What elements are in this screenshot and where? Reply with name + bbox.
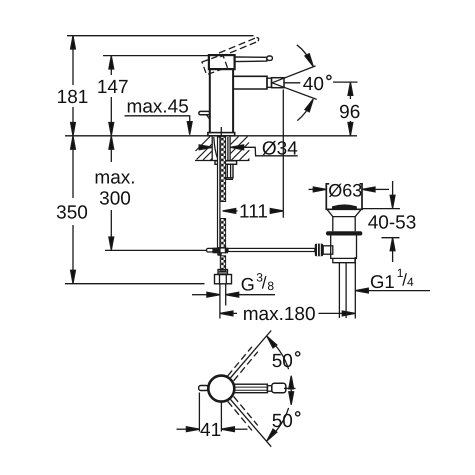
flex hose braided segment 3 [220,256,225,272]
faucet handle cap [209,55,235,69]
flex hose braided segment 1 [220,136,225,201]
dim 181 extension line top [67,35,254,37]
waste valve plug dome [333,205,357,208]
svg-text:111: 111 [239,202,268,223]
waste valve lower body [331,236,357,259]
svg-text:50: 50 [272,351,293,372]
dim 96 top tick [333,81,358,83]
aerator [272,78,285,88]
svg-text:max.180: max.180 [243,304,316,325]
waste valve rim box [326,184,362,210]
dim 40-53 bottom tick [382,237,400,239]
spray fan lower arc arrow [297,101,311,120]
svg-text:/: / [262,274,267,293]
waste valve o-ring [326,231,362,235]
top view rotation double arrow [290,382,292,398]
svg-text:181: 181 [57,87,89,108]
dim 41 arrows [177,428,187,430]
waste tailpipe [338,263,340,318]
G38 arrows [192,294,207,296]
top view lever grip [272,383,286,392]
dim max45 leader [125,116,190,122]
dim 147 arrows [109,56,114,69]
spray fan lines [272,66,316,83]
mounting washer [215,161,237,165]
faucet handle cap dashed (raised) [202,55,227,75]
dim 350 arrows [71,136,76,149]
dim 350 extension line bottom [65,283,205,285]
dim 41 extension right [220,403,222,432]
dim 111 line left [223,210,238,212]
svg-text:50: 50 [272,411,293,432]
top view centerline stub [284,387,296,389]
top view lower dashed lever [228,396,258,430]
dim max180 line right [319,312,356,314]
svg-text:41: 41 [200,420,221,441]
rod stem [323,246,333,254]
faucet lever dashed (raised) [219,38,259,57]
dim 181 line [72,36,74,85]
svg-text:G1: G1 [370,271,395,292]
top view lower arc arrow [270,408,289,438]
base flange [208,133,235,136]
top view pop-up stub [199,386,209,391]
label G114 leader arrow [368,290,430,292]
rod clamp tee [207,248,214,252]
top view lever neck [267,386,271,392]
svg-text:G: G [241,275,255,295]
waste valve step [333,258,355,262]
dim 147 extension line top [103,55,209,57]
svg-text:4: 4 [407,275,414,289]
dim 147 line [110,56,112,75]
pop-up rod vertical [218,137,220,248]
dim max300 line [110,136,112,162]
dim 96 line [349,82,351,99]
dim 350 line [72,136,74,198]
40-53 top tick [362,208,400,210]
top view upper 50 line [231,331,272,378]
flex hose braided segment 2 [220,219,225,248]
svg-text:Ø34: Ø34 [262,138,298,159]
dim 181 arrows [71,36,76,49]
svg-text:max.45: max.45 [127,96,189,117]
top view upper dashed lever [228,347,258,381]
hose curve in hole [214,137,218,158]
dim 111 line right [270,210,284,212]
valve right extension line [354,257,356,319]
svg-text:300: 300 [99,188,131,209]
top view upper arc arrow [270,339,289,369]
faucet body [209,69,211,133]
deck hatch right [231,137,250,161]
top view circle [208,376,234,402]
waste valve neck trapezoid [327,209,361,216]
hose end collar [218,270,228,275]
dim O34 leader [244,147,298,156]
rod knob [315,244,323,257]
svg-text:Ø63: Ø63 [328,180,362,200]
dim max300 extension line bottom [105,249,207,251]
deck surface line [65,135,357,137]
svg-text:350: 350 [56,202,88,223]
hose end nut G38 [215,275,232,284]
dim max180 line left [220,312,237,314]
svg-text:40: 40 [303,74,324,95]
faucet spout [233,76,267,89]
faucet lever solid [235,57,267,62]
mounting nut [225,164,233,178]
top view lower 50 line [231,399,272,446]
deck hatch left [196,137,213,161]
label G38 [241,270,275,294]
svg-text:max.: max. [94,168,135,189]
hose inside body [220,127,222,137]
svg-text:96: 96 [339,102,360,123]
deck bottom line [195,160,250,162]
label G114 [370,266,414,292]
svg-text:8: 8 [267,279,274,293]
svg-text:147: 147 [97,77,129,98]
spout joint [267,78,272,87]
dim 40-53 lower arrow [392,251,394,262]
hose width extension lines [219,284,221,319]
top view lever shaft [234,384,268,393]
spray fan upper arc arrow [297,45,312,64]
dim O34 arrows [198,146,202,148]
dim O63 arrows [309,188,314,190]
dim 41 extension left [198,393,200,432]
shank edge [227,137,229,160]
aerator extension line [282,90,284,218]
pop-up horizontal rod [228,248,315,251]
dim max300 arrows [109,136,114,149]
dim 40-53 upper arrow [392,181,394,195]
deck hole edges [211,136,213,161]
pop-up knob [199,111,210,114]
svg-text:40-53: 40-53 [368,212,417,233]
